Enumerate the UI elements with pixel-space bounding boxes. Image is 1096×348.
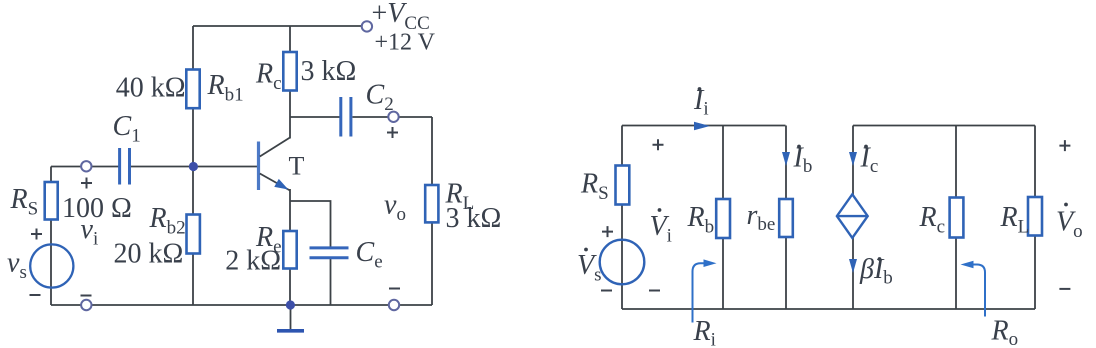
wire: equiv bottom rail xyxy=(622,308,1035,310)
wire: Rb equiv branch xyxy=(722,126,724,310)
arrow Ib on rbe branch xyxy=(782,152,790,166)
label Vs equiv xyxy=(577,248,602,286)
wire: controlled source branch xyxy=(852,126,854,310)
svg-text:100 Ω: 100 Ω xyxy=(62,193,132,224)
wire: Ce to bottom rail xyxy=(330,259,332,306)
node: emitter junction dot xyxy=(286,300,295,309)
svg-text:rbe: rbe xyxy=(747,200,776,235)
polarity - at input bottom xyxy=(81,295,92,297)
svg-text:Vi: Vi xyxy=(650,211,672,247)
svg-text:RS: RS xyxy=(10,184,39,220)
wire: VCC top rail xyxy=(193,25,362,27)
wire: C2 to RL corner xyxy=(353,116,433,118)
wire: input top wire xyxy=(51,166,119,168)
svg-text:βIb: βIb xyxy=(859,254,893,289)
resistor Re box xyxy=(283,231,296,269)
terminal: output top xyxy=(388,112,398,122)
svg-text:RS: RS xyxy=(580,169,609,205)
svg-text:RL: RL xyxy=(1000,202,1030,238)
svg-text:Rb1: Rb1 xyxy=(207,70,244,106)
Ro measuring arrow xyxy=(961,261,986,317)
svg-text:vo: vo xyxy=(384,190,406,226)
resistor Rc box xyxy=(283,52,296,91)
arrow beta-Ib below diamond xyxy=(849,259,857,273)
polarity + at Vo top xyxy=(1059,140,1070,151)
wire: Rb1 branch xyxy=(192,26,194,167)
wire: Rc equiv branch xyxy=(955,126,957,310)
svg-text:vs: vs xyxy=(7,248,27,284)
svg-text:3 kΩ: 3 kΩ xyxy=(301,56,357,87)
label Vi equiv xyxy=(650,208,672,246)
arrow Ii on top rail xyxy=(694,122,710,130)
capacitor C2 plates xyxy=(341,97,351,137)
polarity + at Vi top xyxy=(653,139,664,150)
wire: equiv top rail right xyxy=(853,125,1035,127)
polarity - at Vo bottom xyxy=(1059,288,1070,290)
resistor RL equiv box xyxy=(1028,197,1042,236)
wire: RL equiv branch xyxy=(1034,126,1036,310)
wire: Vs source branch xyxy=(621,126,623,310)
polarity - at Vi bottom xyxy=(649,290,660,292)
wire: RL branch xyxy=(431,117,433,305)
transistor T emitter arrow xyxy=(274,179,290,194)
wire: equiv top rail left xyxy=(622,125,786,127)
wire: base wire xyxy=(130,166,258,168)
wire: collector to C2 xyxy=(290,116,340,118)
Ri measuring arrow xyxy=(693,259,717,322)
wire: Rb2 branch xyxy=(192,167,194,306)
svg-text:T: T xyxy=(289,152,305,181)
polarity - at Vs bottom xyxy=(601,290,612,292)
polarity - at vs bottom xyxy=(30,294,41,296)
source Vs circle xyxy=(600,240,645,285)
svg-text:Ro: Ro xyxy=(991,316,1019,348)
svg-text:40 kΩ: 40 kΩ xyxy=(116,73,186,104)
wire: emitter branch xyxy=(289,189,291,305)
polarity + at input xyxy=(81,178,92,189)
resistor rbe box xyxy=(779,199,793,237)
node: base junction dot xyxy=(189,162,198,171)
ground bar xyxy=(277,329,304,333)
transistor T base bar xyxy=(257,142,260,191)
transistor T emitter lead xyxy=(260,174,290,191)
svg-text:C2: C2 xyxy=(366,80,394,116)
svg-text:Vs: Vs xyxy=(577,250,602,286)
resistor Rb2 box xyxy=(187,215,200,254)
terminal: output bottom xyxy=(389,300,399,310)
polarity + at output xyxy=(387,127,398,138)
resistor Rb1 box xyxy=(186,70,199,109)
terminal: input top xyxy=(81,161,91,171)
resistor Rc equiv box xyxy=(950,198,964,238)
svg-text:+12 V: +12 V xyxy=(375,30,436,56)
label Ic xyxy=(860,143,879,178)
label Ib xyxy=(793,143,813,178)
capacitor Ce plates xyxy=(310,248,349,258)
svg-text:Rc: Rc xyxy=(255,59,282,95)
svg-text:Ic: Ic xyxy=(860,143,879,178)
controlled current source diamond xyxy=(837,194,868,238)
resistor RS equiv box xyxy=(616,166,630,205)
wire: signal source branch xyxy=(50,167,52,306)
transistor T collector lead xyxy=(260,138,290,157)
resistor Rb equiv box xyxy=(716,199,730,238)
wire: bottom rail xyxy=(51,304,432,306)
resistor RL box xyxy=(425,185,438,222)
wire: Rc collector branch xyxy=(289,26,291,139)
svg-text:Ce: Ce xyxy=(356,237,383,273)
ground stub wire xyxy=(290,305,292,330)
label Vo equiv xyxy=(1056,203,1083,242)
terminal: input bottom xyxy=(81,300,91,310)
svg-text:2 kΩ: 2 kΩ xyxy=(225,245,281,276)
svg-text:C1: C1 xyxy=(113,111,141,147)
wire: rbe branch xyxy=(785,126,787,310)
polarity - at output bottom xyxy=(389,288,400,290)
svg-text:Rb2: Rb2 xyxy=(149,203,186,239)
arrow Ic on source branch xyxy=(849,152,857,166)
svg-text:Ri: Ri xyxy=(693,316,716,348)
svg-text:Rb: Rb xyxy=(687,202,715,238)
polarity + at Vs xyxy=(602,226,613,237)
svg-text:3 kΩ: 3 kΩ xyxy=(446,203,502,234)
resistor RS box xyxy=(45,182,58,220)
capacitor C1 plates xyxy=(120,148,130,185)
label beta-Ib xyxy=(859,254,893,289)
svg-text:Vo: Vo xyxy=(1056,207,1083,243)
source vs circle xyxy=(30,244,73,287)
svg-text:Rc: Rc xyxy=(919,202,946,238)
wire: emitter to Ce xyxy=(290,201,331,247)
svg-text:20 kΩ: 20 kΩ xyxy=(113,238,183,269)
polarity + at vs top xyxy=(31,229,42,240)
svg-text:Ib: Ib xyxy=(793,143,813,178)
terminal: VCC xyxy=(362,21,372,31)
label Ii xyxy=(693,85,709,120)
